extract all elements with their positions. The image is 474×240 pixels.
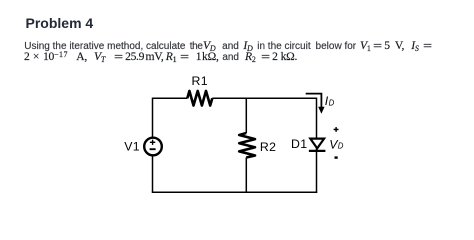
svg-text:VD: VD [329,137,344,151]
svg-text:R2: R2 [260,140,277,154]
svg-text:D1: D1 [291,137,308,151]
svg-text:V1: V1 [124,140,140,154]
svg-text:ID: ID [325,94,335,108]
svg-text:R1: R1 [192,74,209,88]
